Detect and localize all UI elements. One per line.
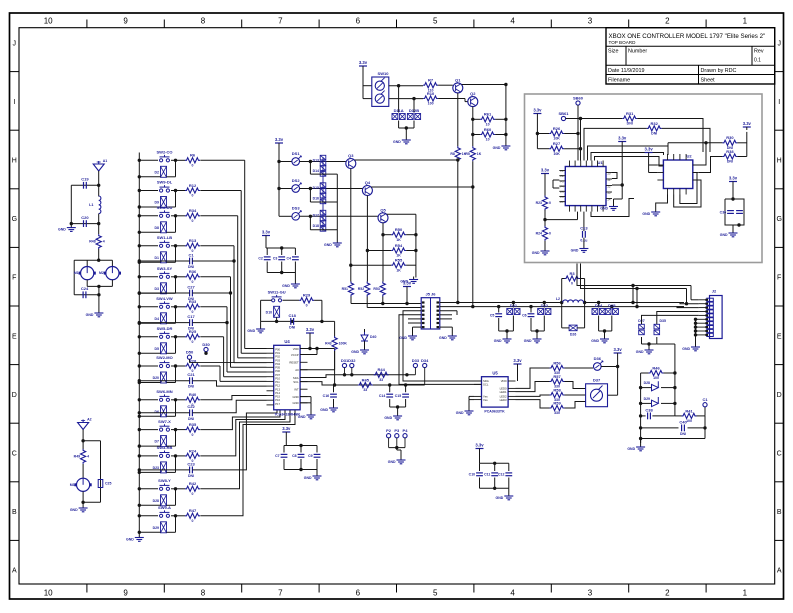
svg-text:D10: D10 xyxy=(266,310,272,314)
svg-text:F: F xyxy=(12,275,16,282)
wire xyxy=(621,145,623,200)
svg-text:G: G xyxy=(12,216,17,223)
svg-text:C40: C40 xyxy=(679,419,687,424)
wire xyxy=(334,321,336,336)
wire xyxy=(406,290,408,304)
svg-text:R36: R36 xyxy=(189,269,197,274)
resistor R27B xyxy=(542,196,547,211)
svg-text:SW5-DR: SW5-DR xyxy=(157,326,173,331)
diode D7 xyxy=(161,436,167,447)
svg-text:U4: U4 xyxy=(284,339,290,344)
ground xyxy=(336,240,338,243)
svg-text:3.3v: 3.3v xyxy=(743,121,752,126)
svg-text:8: 8 xyxy=(201,589,206,598)
svg-text:D50: D50 xyxy=(186,350,194,355)
wire xyxy=(138,159,141,162)
resistor R28B xyxy=(542,226,547,241)
wire xyxy=(531,330,544,332)
svg-text:L1: L1 xyxy=(89,203,93,207)
svg-text:5: 5 xyxy=(433,589,438,598)
svg-text:D17: D17 xyxy=(313,214,319,218)
svg-text:8: 8 xyxy=(201,17,206,26)
wire xyxy=(139,322,189,324)
svg-text:D34: D34 xyxy=(421,358,429,363)
svg-text:0: 0 xyxy=(549,201,551,205)
diode pair D27 xyxy=(639,324,645,329)
svg-text:6: 6 xyxy=(356,17,361,26)
svg-text:P3: P3 xyxy=(560,179,564,183)
svg-text:3.3v: 3.3v xyxy=(729,176,738,181)
svg-text:R31: R31 xyxy=(626,111,634,116)
resistor R29 xyxy=(299,298,314,303)
svg-text:P16: P16 xyxy=(275,398,280,402)
ground xyxy=(451,333,453,336)
svg-text:C20: C20 xyxy=(81,215,89,220)
wire xyxy=(536,117,538,149)
svg-text:DNI: DNI xyxy=(188,417,194,421)
capacitor C22 xyxy=(189,409,191,416)
svg-text:M1: M1 xyxy=(74,271,79,275)
svg-text:100: 100 xyxy=(686,419,692,423)
svg-text:100: 100 xyxy=(428,102,434,106)
ground xyxy=(640,444,642,447)
svg-text:D32: D32 xyxy=(348,358,356,363)
wire xyxy=(390,406,406,408)
wire xyxy=(403,311,482,381)
wire xyxy=(472,107,474,147)
svg-text:Rev: Rev xyxy=(754,49,764,55)
wire xyxy=(469,395,474,397)
svg-text:DS1: DS1 xyxy=(292,151,301,156)
wire xyxy=(192,410,277,470)
svg-text:10: 10 xyxy=(486,138,490,142)
resistor R61 xyxy=(480,117,495,122)
svg-text:GND: GND xyxy=(393,140,401,144)
svg-text:C36: C36 xyxy=(720,210,726,214)
grid ticks bottom xyxy=(86,584,88,593)
diode pair D35 xyxy=(654,324,660,329)
wire xyxy=(300,161,346,163)
wire switch column left bus xyxy=(138,153,140,535)
wire xyxy=(260,321,262,326)
wire chain right rail xyxy=(657,343,675,345)
ground xyxy=(604,336,606,339)
IC U5 PCA9633 xyxy=(482,377,509,407)
svg-text:VCCP: VCCP xyxy=(291,353,299,357)
svg-text:R54: R54 xyxy=(395,243,403,248)
capacitor C24 xyxy=(82,291,84,298)
resistor R56 xyxy=(550,365,565,370)
svg-text:2: 2 xyxy=(665,17,670,26)
switch SW9-A xyxy=(160,514,163,517)
resistor R25 xyxy=(185,334,200,339)
svg-text:SW1-LB: SW1-LB xyxy=(157,235,172,240)
svg-text:3.3v: 3.3v xyxy=(275,137,284,142)
svg-text:C27: C27 xyxy=(187,284,195,289)
diode pair D11 xyxy=(392,114,398,120)
wire xyxy=(389,85,423,87)
wire xyxy=(577,264,691,286)
ground xyxy=(695,344,697,347)
svg-text:3.3v: 3.3v xyxy=(403,281,412,286)
resistor R30 xyxy=(722,140,737,145)
svg-text:0.1: 0.1 xyxy=(754,58,761,64)
test point D30 xyxy=(204,347,208,351)
svg-text:D12B: D12B xyxy=(409,108,419,113)
resistor R8 xyxy=(455,146,460,161)
svg-text:2: 2 xyxy=(665,589,670,598)
wire xyxy=(599,330,612,332)
wire xyxy=(383,234,391,236)
svg-text:R52: R52 xyxy=(358,287,364,291)
svg-text:C14: C14 xyxy=(379,394,385,398)
wire xyxy=(355,159,458,161)
ground xyxy=(732,230,734,233)
diode D29 xyxy=(161,522,167,533)
ground xyxy=(260,326,262,329)
wire xyxy=(648,156,650,173)
wire xyxy=(200,306,227,308)
LED pack D37 xyxy=(586,384,608,407)
svg-text:INT: INT xyxy=(294,388,299,392)
svg-text:C1: C1 xyxy=(188,252,194,257)
wire xyxy=(200,276,230,278)
resistor R52 xyxy=(365,282,370,297)
svg-text:SW2-MO: SW2-MO xyxy=(156,355,172,360)
resistor R26B xyxy=(549,146,564,151)
svg-text:SW2-CO: SW2-CO xyxy=(157,150,173,155)
svg-text:GND: GND xyxy=(571,249,579,253)
resistor R12 xyxy=(185,188,200,193)
svg-text:D28: D28 xyxy=(644,381,650,385)
grid ticks right xyxy=(775,71,784,73)
svg-text:R42: R42 xyxy=(189,481,197,486)
svg-text:P2: P2 xyxy=(560,174,564,178)
svg-text:F: F xyxy=(777,275,781,282)
capacitor C1 xyxy=(189,258,191,265)
svg-text:R50: R50 xyxy=(395,227,403,232)
svg-text:3.3v: 3.3v xyxy=(533,108,542,113)
wire xyxy=(283,459,285,470)
svg-text:GND: GND xyxy=(388,460,396,464)
switch SW5-DR xyxy=(160,335,163,338)
motor M1 xyxy=(81,267,94,280)
resistor R13 xyxy=(185,243,200,248)
svg-text:SW6-MN: SW6-MN xyxy=(156,389,172,394)
svg-text:DNI: DNI xyxy=(188,297,194,301)
wire U5 LED outputs xyxy=(516,368,550,388)
connector J5 J6 xyxy=(421,298,440,329)
wire SDA xyxy=(300,375,344,378)
svg-text:P4: P4 xyxy=(560,185,564,189)
svg-text:3.3v: 3.3v xyxy=(262,230,271,235)
svg-text:A1: A1 xyxy=(103,159,108,163)
svg-text:100K: 100K xyxy=(339,342,348,346)
ground xyxy=(364,347,366,350)
svg-text:C6: C6 xyxy=(522,314,527,318)
switch SW9-DL xyxy=(160,189,163,192)
svg-text:Q5: Q5 xyxy=(380,207,386,212)
svg-text:SW9-DL: SW9-DL xyxy=(157,180,173,185)
svg-text:C3: C3 xyxy=(273,257,278,261)
capacitor C15 xyxy=(402,393,409,395)
svg-text:G: G xyxy=(776,216,781,223)
wire xyxy=(138,487,141,490)
svg-text:R38: R38 xyxy=(726,149,734,154)
wire xyxy=(300,396,311,398)
ground xyxy=(310,412,312,415)
svg-text:R46: R46 xyxy=(652,365,660,370)
svg-text:GND: GND xyxy=(86,313,94,317)
svg-text:SW7-X: SW7-X xyxy=(158,419,171,424)
svg-text:C2: C2 xyxy=(258,257,263,261)
diode D4 xyxy=(161,313,167,324)
wire xyxy=(192,381,266,386)
svg-text:GND: GND xyxy=(532,251,540,255)
resistor R53 xyxy=(380,282,385,297)
switch SW1-LB xyxy=(160,244,163,247)
grid ticks left xyxy=(10,71,20,73)
svg-text:U5: U5 xyxy=(492,371,498,376)
resistor R44 xyxy=(374,372,389,377)
svg-text:Q1: Q1 xyxy=(455,78,461,83)
svg-text:D29: D29 xyxy=(153,526,159,530)
svg-text:C: C xyxy=(777,451,782,458)
svg-text:R7: R7 xyxy=(428,78,434,83)
svg-text:1: 1 xyxy=(743,17,748,26)
ground xyxy=(508,493,510,496)
svg-text:R35: R35 xyxy=(189,422,197,427)
wire xyxy=(732,185,734,200)
svg-text:GND: GND xyxy=(58,228,66,232)
svg-text:J: J xyxy=(777,40,781,47)
svg-text:GND: GND xyxy=(70,508,78,512)
svg-text:P03: P03 xyxy=(275,358,280,362)
svg-text:P12: P12 xyxy=(275,384,280,388)
wire chain left rail xyxy=(640,373,642,443)
svg-text:R55: R55 xyxy=(395,258,403,263)
ground xyxy=(468,408,470,411)
svg-text:Size: Size xyxy=(608,49,619,55)
svg-text:33: 33 xyxy=(363,388,367,392)
svg-text:P17: P17 xyxy=(275,402,280,406)
ground xyxy=(583,246,585,249)
resistor R10 xyxy=(423,96,438,101)
test point D34 xyxy=(423,363,427,367)
diode D10 xyxy=(274,306,280,317)
wire xyxy=(138,454,141,457)
diode D1 xyxy=(161,252,167,263)
svg-text:J2: J2 xyxy=(712,289,717,294)
capacitor C16 xyxy=(330,393,337,395)
svg-text:R48: R48 xyxy=(89,240,95,244)
ground xyxy=(98,310,100,313)
resistor R57 xyxy=(550,379,565,384)
svg-text:3.3v: 3.3v xyxy=(475,443,484,448)
resistor R35 xyxy=(185,427,200,432)
svg-text:P06: P06 xyxy=(275,369,280,373)
transistor Q4 xyxy=(362,186,372,196)
wire xyxy=(345,374,416,376)
resistor R3 xyxy=(565,276,580,281)
svg-text:3.3v: 3.3v xyxy=(618,136,627,141)
svg-text:P05: P05 xyxy=(275,366,280,370)
capacitor C27 xyxy=(189,290,191,297)
wire xyxy=(637,119,703,153)
diode D28 xyxy=(161,495,167,506)
resistor R38 xyxy=(722,154,737,159)
wire xyxy=(200,410,280,430)
test point P3 xyxy=(395,434,399,438)
ground xyxy=(655,209,657,212)
svg-text:R24: R24 xyxy=(536,231,542,235)
wire xyxy=(138,428,141,431)
wire xyxy=(675,415,682,417)
svg-text:C8: C8 xyxy=(292,454,297,458)
svg-text:GND: GND xyxy=(298,415,306,419)
LED DS1 xyxy=(292,158,300,166)
test point P2 xyxy=(387,434,391,438)
svg-text:I: I xyxy=(13,99,15,106)
wire xyxy=(138,305,141,308)
svg-text:P7: P7 xyxy=(560,200,564,204)
svg-text:H: H xyxy=(12,158,17,165)
svg-text:C19: C19 xyxy=(81,177,89,182)
svg-text:R13: R13 xyxy=(189,238,197,243)
wire xyxy=(479,452,481,464)
wire xyxy=(138,214,141,217)
svg-text:0: 0 xyxy=(192,340,194,344)
svg-text:D36: D36 xyxy=(594,356,602,361)
resistor R46 xyxy=(641,372,649,374)
svg-text:C23: C23 xyxy=(187,461,195,466)
capacitor C17 xyxy=(189,319,191,326)
svg-text:Filename: Filename xyxy=(608,77,630,83)
svg-text:P14: P14 xyxy=(275,391,280,395)
svg-text:C11: C11 xyxy=(484,473,490,477)
svg-text:D13: D13 xyxy=(313,159,319,163)
wire xyxy=(138,244,141,247)
wire xyxy=(139,292,189,294)
capacitor C19 xyxy=(83,182,85,189)
resistor R43 xyxy=(332,336,337,351)
resistor R49 xyxy=(80,449,85,464)
resistor R41 xyxy=(682,413,697,418)
svg-text:A2: A2 xyxy=(87,418,92,422)
svg-text:XBOX ONE CONTROLLER MODEL 1797: XBOX ONE CONTROLLER MODEL 1797 "Elite Se… xyxy=(609,33,766,40)
svg-text:D40: D40 xyxy=(370,335,376,339)
svg-text:C21: C21 xyxy=(187,372,195,377)
ground xyxy=(397,413,399,416)
capacitor pack C36 C37 xyxy=(725,199,744,225)
svg-text:R23: R23 xyxy=(536,201,542,205)
svg-text:GND: GND xyxy=(642,212,650,216)
wire xyxy=(139,469,189,471)
svg-text:330: 330 xyxy=(554,411,560,415)
resistor R31 xyxy=(622,116,637,121)
svg-text:C24: C24 xyxy=(81,286,89,291)
switch SW11-GU xyxy=(272,299,275,302)
svg-text:D4: D4 xyxy=(155,317,160,321)
svg-text:D30: D30 xyxy=(202,342,210,347)
wire xyxy=(200,396,266,400)
svg-text:D28: D28 xyxy=(153,499,159,503)
diode D3 xyxy=(161,283,167,294)
IC U2 xyxy=(663,160,692,189)
svg-text:1: 1 xyxy=(743,589,748,598)
resistor R6 xyxy=(185,158,200,163)
svg-text:P1: P1 xyxy=(560,169,564,173)
test point P4 xyxy=(403,434,407,438)
svg-text:0: 0 xyxy=(192,519,194,523)
svg-text:DNI: DNI xyxy=(188,385,194,389)
wire xyxy=(544,210,546,226)
transistor Q3 xyxy=(346,159,356,169)
motor M2 xyxy=(106,267,119,280)
svg-text:C: C xyxy=(12,451,17,458)
svg-text:C12: C12 xyxy=(498,473,504,477)
svg-text:D35: D35 xyxy=(660,319,666,323)
svg-text:R40: R40 xyxy=(189,392,197,397)
diode pair D25 xyxy=(611,306,613,309)
capacitor C6 xyxy=(530,307,532,313)
svg-text:0: 0 xyxy=(192,492,194,496)
wire xyxy=(138,335,141,338)
switch SW7-X xyxy=(160,428,163,431)
svg-text:D3: D3 xyxy=(155,287,160,291)
svg-text:R47: R47 xyxy=(189,508,197,513)
svg-text:P6: P6 xyxy=(560,195,564,199)
svg-text:D14: D14 xyxy=(313,169,319,173)
wire xyxy=(200,190,241,192)
svg-text:R34: R34 xyxy=(189,208,197,213)
wire xyxy=(362,69,364,99)
switch SW8-Y xyxy=(160,487,163,490)
diode D28 xyxy=(641,387,651,389)
svg-text:RESET: RESET xyxy=(289,361,299,365)
svg-text:R61: R61 xyxy=(484,112,492,117)
capacitor C23 xyxy=(189,467,191,474)
svg-text:P10: P10 xyxy=(275,376,280,380)
resistor R59 xyxy=(550,405,565,410)
resistor R25B xyxy=(549,131,564,136)
wire xyxy=(192,400,266,413)
diode D8 xyxy=(161,222,167,233)
switch SW6-MN xyxy=(160,398,163,401)
resistor R47 xyxy=(185,513,200,518)
svg-text:3.3v: 3.3v xyxy=(282,426,291,431)
svg-text:10K: 10K xyxy=(553,137,560,141)
resistor R32 xyxy=(647,126,662,131)
capacitor C2 xyxy=(264,256,271,258)
svg-text:DNI: DNI xyxy=(188,327,194,331)
svg-text:R57: R57 xyxy=(553,374,561,379)
net flag SB60 xyxy=(576,101,580,105)
test point D50 xyxy=(187,355,191,359)
svg-text:R27: R27 xyxy=(553,141,561,146)
ground xyxy=(505,143,507,146)
wire xyxy=(564,133,578,135)
diode array D13-D18 xyxy=(322,157,324,231)
wire xyxy=(138,275,141,278)
wire xyxy=(479,478,481,489)
wire xyxy=(138,189,141,192)
diode D9 xyxy=(161,197,167,208)
svg-text:R45: R45 xyxy=(362,377,370,382)
svg-text:R59: R59 xyxy=(553,400,561,405)
wire xyxy=(553,179,559,181)
wire xyxy=(364,329,366,332)
